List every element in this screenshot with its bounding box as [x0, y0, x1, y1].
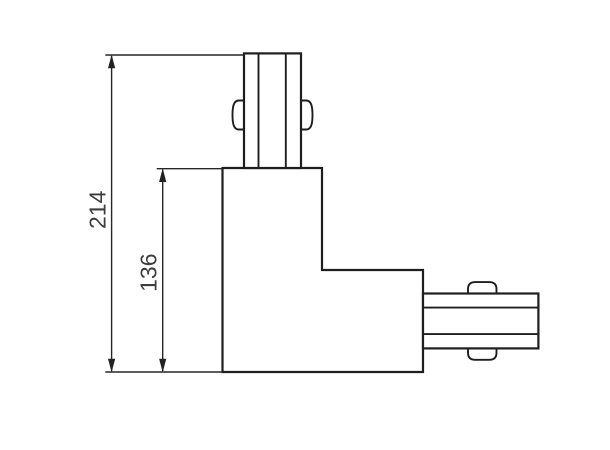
arrowhead 136 top: [159, 168, 166, 182]
top connector left tab: [233, 101, 244, 130]
right connector inner stripe line bottom: [423, 333, 538, 335]
top connector body rectangle: [244, 53, 301, 168]
right connector bottom tab: [468, 348, 497, 359]
extension line bottom (shared lower reference): [105, 371, 222, 373]
dimension line 136: [162, 170, 164, 371]
extension line middle (136 upper reference): [157, 168, 223, 170]
top connector inner stripe line left: [258, 53, 260, 168]
arrowhead 214 bottom: [108, 359, 115, 373]
L-shaped connector body outline: [223, 168, 424, 372]
right connector inner stripe line top: [423, 307, 538, 309]
right connector top tab: [468, 282, 497, 293]
svg-text:214: 214: [84, 190, 110, 229]
top connector inner stripe line right: [285, 53, 287, 168]
extension line top (214 upper reference): [105, 54, 245, 56]
dimension line 214: [111, 56, 113, 371]
top connector right tab: [301, 101, 312, 130]
arrowhead 136 bottom: [159, 359, 166, 373]
arrowhead 214 top: [108, 55, 115, 69]
svg-text:136: 136: [136, 254, 162, 292]
right connector body rectangle: [423, 294, 538, 349]
